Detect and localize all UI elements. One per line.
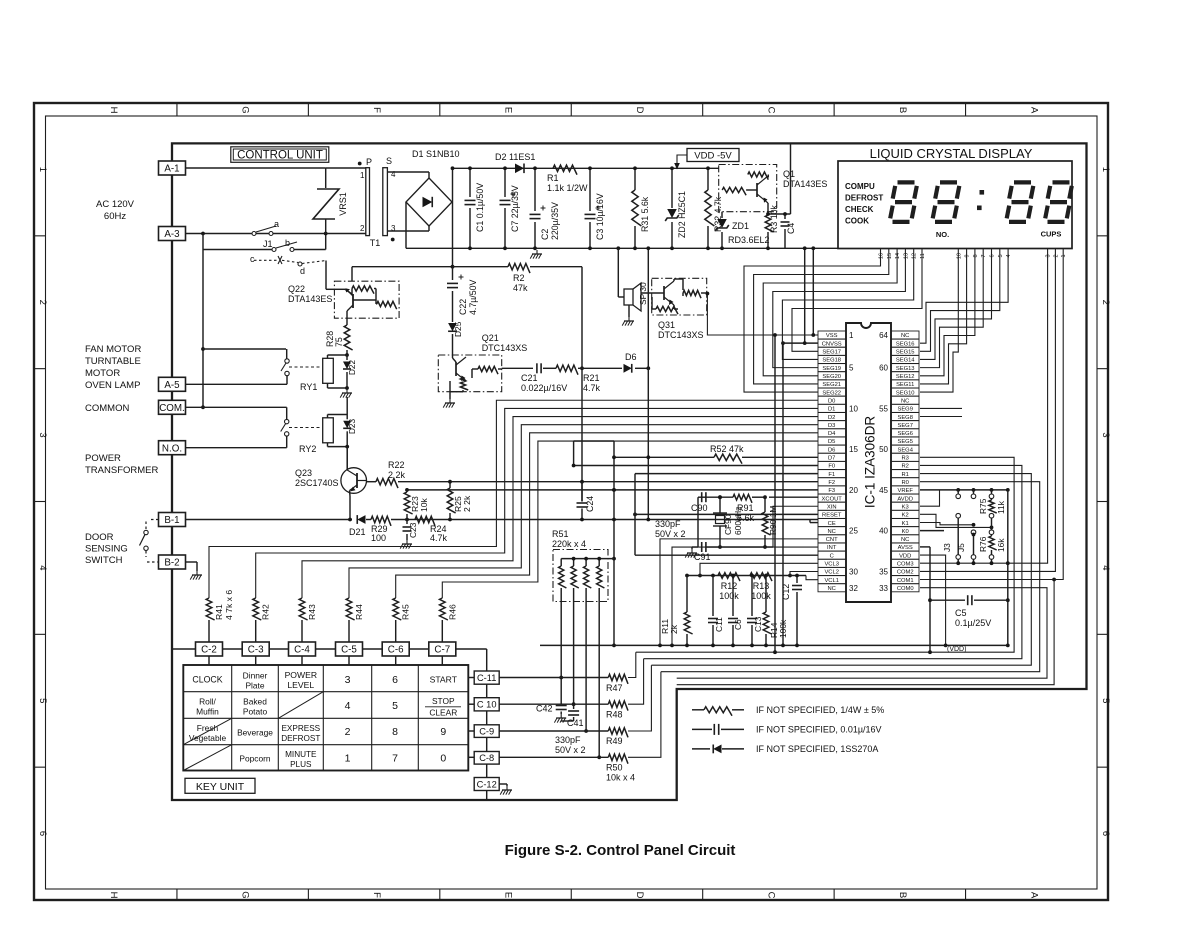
wire R2 node [453,266,509,268]
wire LCD pin 7 to IC SEG13 [920,249,983,368]
wire Q1 to top boundary [790,143,792,214]
resistor R13 100k [750,573,772,581]
wire AVSS line [920,546,930,548]
svg-text:D0: D0 [828,398,835,404]
svg-text:8: 8 [973,254,979,257]
capacitor C2 [534,168,536,211]
svg-text:C7 22µ/35V: C7 22µ/35V [510,185,520,232]
svg-text:8: 8 [392,726,398,738]
IC-1 pin 21 XCOUT [818,494,846,502]
ground at C91 [692,546,698,548]
svg-text:SEG13: SEG13 [896,366,915,372]
svg-text:J3: J3 [942,543,952,552]
svg-text:D22: D22 [348,360,357,375]
wire bus R1 long line [651,474,1031,666]
IC-1 pin 63 SEG16 [892,339,920,347]
wire INT line [672,547,818,645]
label VDD -5V [687,149,739,162]
svg-text:R2: R2 [513,273,525,283]
resistor R21 4.7k [556,365,578,375]
IC-1 pin 45 VREF [892,486,920,494]
resistor R32 [707,168,709,190]
svg-text:R51: R51 [552,529,569,539]
svg-text:C6: C6 [733,619,743,630]
svg-text:1: 1 [849,331,854,340]
resistor R11 2k [685,574,689,578]
svg-text:10k x 4: 10k x 4 [606,773,635,783]
svg-text:75: 75 [334,337,344,347]
capacitor C11 [711,574,715,578]
svg-text:50: 50 [879,445,888,454]
svg-text:VRS1: VRS1 [338,192,348,216]
capacitor C4 [768,213,791,215]
wire bus D1 to key column C-3 [256,408,818,598]
svg-text:100k: 100k [751,591,771,601]
capacitor C12 [796,576,798,584]
svg-text:R13: R13 [753,581,770,591]
control unit boundary outline [172,143,1087,800]
svg-text:2: 2 [345,726,351,738]
capacitor C24 [581,482,583,502]
svg-text:1: 1 [360,171,365,180]
svg-text:9: 9 [965,254,971,257]
wire K2 to R75 R76 node [920,514,992,527]
svg-text:C-6: C-6 [388,645,404,656]
wire LCD pin 14 to IC SEG20 [763,249,897,376]
IC-1 pin 36 COM3 [892,559,920,567]
svg-text:C-7: C-7 [434,645,450,656]
svg-text:11k: 11k [996,500,1006,514]
resistor R50 [608,754,628,764]
svg-text:MINUTE: MINUTE [285,750,317,759]
svg-text:Popcorn: Popcorn [239,754,271,764]
IC-1 pin 56 NC [892,396,920,404]
IC-1 pin 9 D0 [818,396,846,404]
svg-text:C-5: C-5 [341,645,357,656]
IC-1 pin 15 D6 [818,445,846,453]
transistor Q31 DTC143XS [652,278,707,315]
svg-text:D1: D1 [828,407,835,413]
svg-text:3: 3 [37,432,48,437]
legend capacitor symbol [692,728,712,730]
svg-text:6: 6 [392,674,398,686]
svg-text:R48: R48 [606,710,623,720]
wire Q21 to C21 [502,367,533,369]
svg-text:SEG14: SEG14 [896,358,915,364]
svg-text:D5: D5 [828,439,835,445]
svg-text:K0: K0 [902,529,909,535]
svg-text:CF90: CF90 [723,514,733,535]
svg-text:35: 35 [879,567,888,576]
transistor Q22 DTA143ES [334,281,399,318]
svg-text:IF NOT SPECIFIED, 1SS270A: IF NOT SPECIFIED, 1SS270A [756,744,878,754]
svg-text:D2: D2 [828,415,835,421]
svg-text:D7: D7 [828,456,835,462]
door sensing switch contacts [145,522,147,530]
svg-text:SEG4: SEG4 [897,447,913,453]
wire bus R2 long line [644,465,1022,658]
svg-text:C22: C22 [458,299,468,315]
wire N.O. to RY2 [186,447,287,449]
svg-text:C5: C5 [955,608,967,618]
svg-text:E: E [503,107,514,113]
wire RY2 to Q23 collector [346,447,348,469]
IC-1 pin 1 VSS [818,331,846,339]
svg-text:R44: R44 [354,604,364,620]
svg-text:INT: INT [827,545,837,551]
svg-text:55: 55 [879,404,888,413]
svg-text:3: 3 [1046,254,1052,257]
resistor R91 5.6k [733,494,752,502]
svg-text:OVEN LAMP: OVEN LAMP [85,380,140,391]
border zone letters bottom [176,889,178,900]
IC-1 pin 62 SEG15 [892,347,920,355]
svg-text:DEFROST: DEFROST [845,194,883,203]
ground below C23 [406,540,408,544]
IC-1 pin 19 F2 [818,478,846,486]
svg-text:R31 5.6k: R31 5.6k [640,196,650,232]
wire F1 RESET C vertical [634,474,636,556]
svg-text:1: 1 [1100,167,1111,172]
IC-1 pin 31 VCL1 [818,576,846,584]
svg-text:2 2k: 2 2k [388,470,406,480]
svg-text:SEG10: SEG10 [896,390,915,396]
IC-1 pin 16 D7 [818,453,846,461]
svg-text:T1: T1 [370,238,381,248]
svg-text:R12: R12 [721,581,738,591]
svg-text:SEG17: SEG17 [822,350,841,356]
border frame outer [34,103,1108,900]
wire CNT line [660,539,818,646]
legend resistor symbol [692,709,704,711]
wire Q23 base line L1 [376,479,398,489]
svg-text:5: 5 [1100,698,1111,703]
IC-1 pin 11 D2 [818,413,846,421]
svg-text:IC-1 IZA306DR: IC-1 IZA306DR [863,416,878,509]
svg-text:POWER: POWER [285,670,317,680]
wire LCD pin 5 to IC SEG11 [920,249,1000,352]
resistor R43 [299,598,307,620]
IC-1 pin 24 CE [818,519,846,527]
wire key column bus [172,648,487,650]
svg-text:CNVSS: CNVSS [822,341,842,347]
svg-text:2: 2 [37,300,48,305]
wire LCD pin 6 to IC SEG12 [920,249,992,360]
wire K3 to VREF bar [920,490,940,506]
svg-text:16: 16 [879,253,885,259]
svg-text:C23: C23 [408,522,418,538]
resistor R75 11k [991,490,993,494]
border zone numbers right [1097,235,1108,237]
svg-text:DTA143ES: DTA143ES [783,179,827,189]
terminal C-11 [474,671,499,684]
capacitor C22 4.7u/50V [451,265,455,269]
svg-text:1: 1 [37,167,48,172]
wire COM to RY2 [186,406,287,408]
ground below rail [536,250,538,254]
svg-text:C-2: C-2 [201,645,217,656]
IC-1 pin 41 K1 [892,519,920,527]
wire SEG lines right extension [920,407,962,409]
svg-text:b: b [285,238,290,248]
svg-text:C11: C11 [714,617,724,632]
svg-text:Roll/: Roll/ [199,697,216,707]
wire LCD pin 9 to IC SEG15 [920,249,967,384]
svg-text:100k: 100k [719,591,739,601]
svg-text:J1: J1 [263,239,273,249]
supply rail VDD [453,167,719,169]
svg-text:R47: R47 [606,683,623,693]
svg-text:D: D [634,892,645,899]
svg-text:R3: R3 [901,456,908,462]
svg-text:600kHz: 600kHz [733,507,743,535]
svg-text:H: H [108,107,119,114]
resistor R45 [393,598,401,620]
IC-1 pin 5 SEG19 [818,364,846,372]
svg-text:LIQUID CRYSTAL DISPLAY: LIQUID CRYSTAL DISPLAY [870,146,1033,161]
svg-text:10: 10 [956,253,962,259]
svg-text:6: 6 [1100,831,1111,836]
svg-text:SEG16: SEG16 [896,341,915,347]
wire bus D2 to key column C-4 [302,417,818,598]
terminal C-2 [196,642,223,656]
LCD colon [980,190,985,195]
wire VCL1 line [806,576,818,580]
wire bus R0 long line [661,482,1040,672]
svg-text:Beverage: Beverage [237,728,273,738]
svg-text:C41: C41 [567,718,584,728]
svg-text:F1: F1 [828,472,835,478]
svg-text:SEG6: SEG6 [897,431,912,437]
resistor R3 10k [767,212,769,215]
svg-text:F0: F0 [828,464,835,470]
diode D25 [448,323,457,331]
svg-text:J5: J5 [956,543,966,552]
svg-text:P: P [366,157,372,167]
svg-text:D4: D4 [828,431,836,437]
svg-text:R90 1M: R90 1M [768,506,778,535]
svg-text:13: 13 [903,253,909,259]
svg-text:SEG7: SEG7 [897,423,912,429]
wire COM1 to LCD pin 1 [920,249,1063,580]
wire LCD pin 8 to IC SEG14 [920,249,975,376]
svg-text:AC 120V: AC 120V [96,199,135,210]
svg-text:4: 4 [37,565,48,570]
svg-text:NO.: NO. [936,230,949,239]
wire LCD pin 4 to IC SEG10 [920,249,1008,344]
svg-text:R21: R21 [583,373,600,383]
svg-text:A: A [1028,107,1039,114]
wire VCL2 line [790,571,818,575]
svg-text:RY2: RY2 [299,444,316,454]
svg-text:EXPRESS: EXPRESS [281,724,320,733]
LCD digit 2 [940,180,957,184]
svg-text:C-3: C-3 [248,645,264,656]
diode D23 [346,415,348,420]
svg-text:F: F [371,892,382,898]
svg-text:DTC143XS: DTC143XS [658,330,704,340]
IC-1 pin 23 RESET [818,510,846,518]
speaker SP 30 [624,289,633,305]
terminal C-4 [289,642,316,656]
svg-text:PLUS: PLUS [290,760,312,769]
wire LCD pin 12 to IC SEG18 [782,249,913,360]
svg-text:2: 2 [1053,254,1059,257]
relay RY2 coil [323,418,334,443]
wire R28 to relay coils [346,350,348,355]
resistor R24 4.7k [415,516,435,526]
svg-text:33: 33 [879,584,888,593]
wire CE stub [810,522,818,524]
svg-text:NC: NC [828,586,836,592]
transistor Q23 2SC1740S [341,468,367,494]
svg-text:5: 5 [392,700,398,712]
IC-1 pin 26 CNT [818,535,846,543]
svg-text:K1: K1 [902,521,909,527]
jumper J3 [957,490,959,494]
wire CNVSS vertical [782,343,784,645]
resistor R76 16k [989,530,994,535]
wire COM3 to LCD pin 3 [920,249,1048,564]
svg-text:45: 45 [879,486,888,495]
capacitor C3 [589,168,591,211]
svg-text:CONTROL UNIT: CONTROL UNIT [237,150,323,162]
wire bridge positive rail [452,168,454,266]
key matrix table grid [183,665,468,771]
svg-text:F: F [371,107,382,113]
svg-text:9: 9 [440,726,446,738]
wire bus D5 to key column C-7 [442,441,818,598]
svg-text:NC: NC [828,529,836,535]
svg-text:R50: R50 [606,763,623,773]
IC-1 pin 50 SEG4 [892,445,920,453]
svg-text:SEG11: SEG11 [896,382,914,388]
transistor Q21 DTC143XS [438,355,501,392]
svg-text:VDD -5V: VDD -5V [694,150,732,161]
capacitor C41 [573,706,575,709]
terminal C-12 [474,778,499,791]
svg-text:VCL3: VCL3 [824,562,839,568]
svg-text:RY1: RY1 [300,382,317,392]
svg-text:VREF: VREF [897,488,913,494]
wire XCOUT line [769,496,818,498]
terminal COM [159,400,186,414]
svg-text:Dinner: Dinner [243,671,268,681]
svg-text:Q22: Q22 [288,284,305,294]
resistor R52 47k [614,456,714,458]
node A-3 branch [201,232,205,236]
svg-text:VDD: VDD [899,553,911,559]
wire bus D4 to key column C-6 [396,433,818,598]
svg-text:6: 6 [990,254,996,257]
svg-text:C90: C90 [691,503,708,513]
wire bus guard line [677,580,1054,685]
IC-1 pin 30 VCL2 [818,567,846,575]
wire A-1 to transformer [186,167,326,169]
ground below speaker [628,305,630,317]
IC-1 pin 58 SEG11 [892,380,920,388]
svg-text:SEG8: SEG8 [897,415,912,421]
wire RY1 common [203,348,286,350]
blank key cell diagonal 2 [183,745,231,771]
svg-text:5: 5 [998,254,1004,257]
svg-text:R45: R45 [401,604,411,620]
wires R51 outputs down [560,602,562,702]
svg-text:3: 3 [1100,432,1111,437]
svg-text:R1: R1 [547,173,559,183]
svg-text:C-9: C-9 [479,726,494,736]
ground rail [406,247,895,249]
svg-text:c: c [250,254,255,264]
svg-text:NC: NC [901,537,909,543]
svg-text:60Hz: 60Hz [104,211,126,222]
IC-1 pin 20 F3 [818,486,846,494]
wire C22 branch vertical [647,248,649,519]
resistor R23 10k [405,488,409,492]
relay RY2 switch [285,419,289,423]
wire bus COM0 line [677,588,1047,679]
resistor R42 [253,598,261,620]
transformer T1 secondary [383,168,388,236]
svg-text:SEG19: SEG19 [822,366,841,372]
svg-text:1.1k 1/2W: 1.1k 1/2W [547,183,588,193]
svg-text:G: G [240,891,251,898]
svg-text:220k x 4: 220k x 4 [552,539,586,549]
IC-1 pin 43 K3 [892,502,920,510]
svg-text:ZD2 HZ5C1: ZD2 HZ5C1 [677,191,687,238]
svg-text:XIN: XIN [827,504,837,510]
svg-text:330pF: 330pF [555,735,581,745]
svg-text:50V x 2: 50V x 2 [555,745,586,755]
svg-text:Vegetable: Vegetable [189,733,227,743]
svg-text:A-5: A-5 [164,380,180,391]
svg-text:LEVEL: LEVEL [287,680,314,690]
svg-text:STOP: STOP [432,696,455,706]
IC-1 pin 8 SEG22 [818,388,846,396]
svg-text:0.022µ/16V: 0.022µ/16V [521,383,567,393]
svg-text:SEG15: SEG15 [896,350,915,356]
wire VSS ground vertical [774,335,776,652]
wire COM2 to LCD pin 2 [920,249,1055,572]
terminal A-5 [159,377,186,391]
wire bus line L2 to pin F3 [407,489,818,491]
svg-text:IF NOT SPECIFIED, 0.01µ/16V: IF NOT SPECIFIED, 0.01µ/16V [756,725,882,735]
svg-text:SEG18: SEG18 [822,358,841,364]
svg-text:C-12: C-12 [477,780,497,790]
svg-text:D: D [634,107,645,114]
svg-text:D3: D3 [828,423,835,429]
svg-text:C13: C13 [753,616,763,632]
IC-1 pin 27 INT [818,543,846,551]
transformer T1 primary [366,168,370,236]
svg-text:VSS: VSS [826,333,838,339]
svg-text:CE: CE [828,521,836,527]
border zone numbers left [34,235,46,237]
IC-1 pin 52 SEG6 [892,429,920,437]
resistor R31 [634,168,636,190]
capacitor C23 [405,518,409,522]
svg-text:4.7k: 4.7k [583,383,601,393]
ground below Q21 [449,392,451,399]
IC-1 pin 28 C [818,551,846,559]
IC-1 pin 33 COM0 [892,584,920,592]
svg-text:2 2k: 2 2k [462,495,472,512]
IC-1 pin 51 SEG5 [892,437,920,445]
svg-text:F3: F3 [828,488,835,494]
svg-text:16k: 16k [996,538,1006,552]
IC-1 pin 39 NC [892,535,920,543]
switch J1 contact b [203,249,272,251]
